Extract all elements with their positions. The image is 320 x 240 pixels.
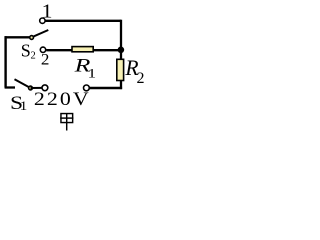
wire bottom-left stub [5, 86, 15, 88]
switch S1 pivot dot [29, 86, 33, 90]
switch S1 blade [15, 79, 31, 88]
svg-text:2: 2 [31, 50, 36, 61]
node junction dot [118, 47, 125, 54]
svg-text:2: 2 [137, 70, 145, 87]
resistor R1 [72, 47, 93, 52]
contact 2 circle [40, 47, 45, 52]
svg-text:2: 2 [41, 50, 50, 68]
switch S2 blade [32, 30, 49, 37]
supply terminal right circle [84, 85, 90, 91]
wire top-left stub to S2 pivot [5, 36, 30, 38]
wire junction to R2 top [120, 49, 122, 60]
svg-text:220V: 220V [34, 89, 91, 109]
resistor R2 [117, 59, 124, 80]
svg-text:1: 1 [88, 67, 96, 81]
wire S1 pivot to supply circle [31, 87, 43, 89]
wire right vertical upper [120, 20, 122, 50]
wire top horizontal [45, 20, 121, 22]
contact 1 circle [40, 18, 45, 23]
svg-text:1: 1 [20, 99, 28, 113]
svg-text:S: S [21, 40, 31, 60]
wire contact2 to R1 [46, 49, 72, 51]
wire bottom horizontal [90, 87, 123, 89]
wire R1 to junction [93, 49, 121, 51]
label jia (甲) drawn [60, 114, 73, 131]
supply terminal left circle [42, 85, 48, 91]
wire R2 bottom to corner [120, 80, 122, 89]
switch S2 pivot dot [30, 36, 34, 40]
svg-text:1: 1 [42, 0, 53, 22]
wire left vertical [4, 36, 6, 87]
